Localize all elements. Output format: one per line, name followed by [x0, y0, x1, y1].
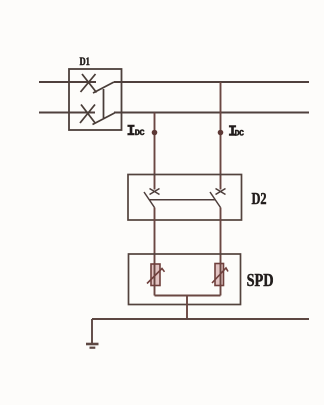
svg-text:D1: D1 — [80, 56, 90, 68]
svg-text:D2: D2 — [252, 190, 267, 208]
svg-text:DC: DC — [135, 128, 145, 138]
svg-text:SPD: SPD — [247, 270, 274, 290]
svg-text:DC: DC — [235, 130, 245, 139]
